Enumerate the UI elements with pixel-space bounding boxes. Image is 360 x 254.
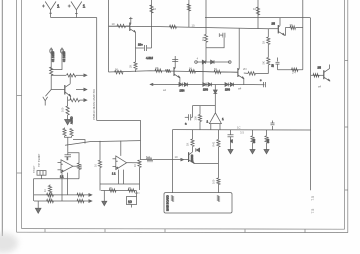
svg-text:10: 10 xyxy=(153,7,157,11)
svg-text:100: 100 xyxy=(61,107,65,112)
ground GND2 xyxy=(228,150,233,154)
wire R32 link xyxy=(132,163,140,190)
resistor R23 leg xyxy=(265,130,270,150)
wire mid rail y72 xyxy=(109,71,238,73)
resistor R5 xyxy=(117,24,126,27)
wire R18 to Q6 xyxy=(192,147,194,153)
svg-text:2K: 2K xyxy=(128,186,131,190)
wire Q5 emitter kink xyxy=(284,28,290,36)
svg-text:2K: 2K xyxy=(109,186,112,190)
wire Q6 base row xyxy=(141,159,147,161)
signal arrow out 3 xyxy=(80,99,87,102)
svg-text:2.4: 2.4 xyxy=(292,71,296,75)
terminal blob 1 xyxy=(171,196,173,202)
svg-text:-: - xyxy=(116,159,117,163)
op-amp U1 xyxy=(207,113,225,130)
resistor R35 xyxy=(47,199,54,202)
svg-text:24=: 24= xyxy=(135,191,140,195)
wire U1 left input xyxy=(192,106,194,118)
svg-text:2N: 2N xyxy=(272,22,275,26)
wire Q4 base xyxy=(221,71,238,73)
wire R19 to Q6 xyxy=(153,159,189,161)
wire bottom row 2 xyxy=(34,200,91,202)
wire base row xyxy=(51,89,65,91)
wire R7 to rail xyxy=(135,70,137,73)
wire vertical x189 xyxy=(188,0,190,27)
wire R31 down xyxy=(99,168,101,191)
resistor R21 xyxy=(217,178,220,184)
resistor R25 xyxy=(292,68,298,71)
resistor R22 leg xyxy=(251,130,256,150)
resistor R34 xyxy=(77,193,84,196)
wire supply vertical x108 xyxy=(108,0,110,72)
diode CR11 xyxy=(213,90,217,94)
resistor R32 xyxy=(138,160,141,167)
svg-text:4.52J: 4.52J xyxy=(146,56,153,60)
wire Q3 emitter to bus xyxy=(179,78,181,85)
svg-text:5K: 5K xyxy=(262,61,266,64)
svg-text:560: 560 xyxy=(267,138,270,143)
capacitor C4 above Q3 xyxy=(172,60,178,62)
signal arrow out 1 xyxy=(76,74,87,77)
svg-text:MAIN BOARD: MAIN BOARD xyxy=(167,195,170,211)
resistor R18 xyxy=(191,139,194,146)
wire x268 chain xyxy=(267,29,269,37)
wire bias vertical xyxy=(50,75,52,89)
resistor R36 xyxy=(77,199,84,202)
wire R16 right xyxy=(256,72,269,74)
diode pair CR5 CR6 xyxy=(179,83,188,93)
wire bottom of right cluster xyxy=(278,69,303,71)
wire Q7 base xyxy=(311,74,324,76)
transistor Q5 xyxy=(272,18,285,36)
svg-text:a4: a4 xyxy=(318,85,322,89)
wire bottom row 1 xyxy=(34,194,91,196)
wire U2 pin drops xyxy=(62,173,68,201)
resistor R14 xyxy=(189,70,195,73)
svg-text:.01: .01 xyxy=(231,139,234,143)
resistor R40 xyxy=(204,34,207,42)
border zone tick marks xyxy=(17,61,348,233)
wire corner to bottom-left area xyxy=(97,121,141,161)
capacitor C1 xyxy=(50,48,55,67)
svg-text:10: 10 xyxy=(128,200,132,204)
wire vertical x303 xyxy=(302,0,304,70)
capacitor C2 xyxy=(61,48,66,67)
svg-text:a4: a4 xyxy=(238,87,242,91)
resistor R38 xyxy=(109,189,116,192)
transistor Q2a xyxy=(129,17,136,33)
svg-text:1K: 1K xyxy=(262,41,266,44)
transistor Q7 xyxy=(318,65,331,82)
capacitor C11 xyxy=(219,33,225,38)
signal arrow out 2 xyxy=(76,88,87,91)
svg-text:TP TEMP: TP TEMP xyxy=(37,154,41,167)
resistor R16 xyxy=(248,72,255,75)
capacitor C10 xyxy=(65,155,72,160)
resistor R39 xyxy=(128,189,135,192)
wire center bus xyxy=(151,83,265,85)
wire x206 lower xyxy=(205,42,207,62)
transistor Q6 xyxy=(189,152,195,164)
svg-text:100: 100 xyxy=(194,116,198,121)
svg-text:R41: R41 xyxy=(212,141,216,146)
svg-text:5a1: 5a1 xyxy=(146,155,151,159)
svg-text:560: 560 xyxy=(253,138,256,143)
resistor R6 xyxy=(150,5,153,13)
resistor R15 xyxy=(214,70,221,73)
svg-text:10: 10 xyxy=(112,22,116,26)
svg-text:1N4: 1N4 xyxy=(180,89,185,93)
wire U2 feedback xyxy=(68,153,79,163)
resistor R20 xyxy=(217,140,220,147)
resistor R31 xyxy=(98,160,101,167)
svg-text:2N: 2N xyxy=(318,66,321,70)
page bottom-left corner shadow xyxy=(0,233,18,253)
resistor R8 xyxy=(170,25,177,28)
diode CR1 (top-left V symbol) xyxy=(42,2,60,18)
svg-text:1K: 1K xyxy=(44,189,47,192)
wire R21 to box xyxy=(217,185,219,193)
wire vertical x206 xyxy=(205,0,207,34)
resistor R33 xyxy=(47,193,54,196)
resistor R9 xyxy=(187,4,190,11)
resistor R30 xyxy=(77,163,80,169)
wire slanted mid link xyxy=(65,141,141,146)
diode CR4 xyxy=(211,60,214,64)
svg-text:10: 10 xyxy=(253,7,257,11)
ground GND1 xyxy=(65,115,74,125)
wire left drop xyxy=(33,179,35,201)
wire left long vertical xyxy=(96,18,98,121)
op-amp U3 xyxy=(112,156,132,176)
wire x268 bottom xyxy=(267,65,269,74)
test point Y symbol xyxy=(43,90,51,106)
wire CR11 to U1 xyxy=(214,94,216,113)
transistor Q4 xyxy=(238,28,244,79)
wire lower rail xyxy=(173,129,311,131)
wire Q5 base xyxy=(268,28,278,30)
svg-text:C1 10/25: C1 10/25 xyxy=(51,51,55,62)
wire bus to diode CR11 xyxy=(214,85,216,91)
wire Q2a emitter down xyxy=(134,32,136,48)
resistor R12 xyxy=(155,69,162,72)
svg-text:1N4: 1N4 xyxy=(225,88,230,92)
capacitor C3 xyxy=(136,43,154,61)
transistor Q1 xyxy=(65,75,71,96)
wire R5 to Q2a xyxy=(126,25,130,27)
diode pair CR9 CR10 xyxy=(225,83,234,92)
wire Q4 emitter to bus xyxy=(243,79,245,85)
resistor R3 xyxy=(70,98,80,101)
resistor R1 xyxy=(50,67,53,75)
terminal blob 2 xyxy=(217,196,219,202)
wire x172 to box xyxy=(172,130,174,193)
wire rail to R20 xyxy=(217,130,219,140)
svg-text:1K: 1K xyxy=(186,143,190,146)
wire mid rail right part xyxy=(196,70,215,73)
wire bypass loop xyxy=(206,38,224,48)
wire rail after Q4 xyxy=(244,72,248,74)
wire U1 feedback top xyxy=(193,106,216,115)
capacitor C9 xyxy=(272,58,280,70)
wire U3 top drops xyxy=(100,141,121,160)
junction arrow on base wire xyxy=(181,158,184,161)
svg-text:7.5: 7.5 xyxy=(311,196,315,201)
svg-text:56: 56 xyxy=(115,68,118,72)
bus left arrow xyxy=(150,83,153,85)
resistor R19 xyxy=(147,158,153,161)
svg-text:3K: 3K xyxy=(290,23,293,27)
resistor R17 xyxy=(198,115,201,122)
op-amp U2 xyxy=(58,157,80,179)
svg-text:7.5: 7.5 xyxy=(311,209,315,214)
wire vertical x151 xyxy=(151,0,153,48)
diode pair CR7 CR8 xyxy=(203,83,212,92)
resistor R27 xyxy=(267,58,270,65)
wire joining caps xyxy=(51,67,62,70)
svg-text:1N4: 1N4 xyxy=(203,88,208,92)
arrow row 2 xyxy=(89,200,92,203)
svg-text:3.5: 3.5 xyxy=(240,131,244,135)
resistor R37 vertical xyxy=(48,185,51,202)
node wire row 1 xyxy=(51,74,66,76)
resistor R10 xyxy=(256,7,259,15)
resistor R7 xyxy=(134,62,137,69)
wire rail to R18 xyxy=(192,130,194,139)
resistor R24 xyxy=(290,26,296,29)
wire emitter row xyxy=(68,97,71,107)
wire x218 middle xyxy=(217,147,219,178)
wire x203 to bus xyxy=(202,61,204,84)
wire top supply rail xyxy=(205,18,311,191)
resistor R13 xyxy=(166,69,171,72)
scan page left edge xyxy=(1,0,3,236)
capacitor C8 on rail xyxy=(271,121,275,131)
svg-text:10a: 10a xyxy=(202,36,205,41)
wire base Q2a xyxy=(109,25,118,27)
resistor R29 pair a xyxy=(63,128,66,136)
svg-text:AGND: AGND xyxy=(70,116,74,124)
resistor R29 pair b xyxy=(70,129,73,136)
wire Q6 emitter row xyxy=(194,162,218,164)
wire mid link stub xyxy=(73,140,85,144)
svg-text:1C: 1C xyxy=(237,126,241,130)
wire x268 mid xyxy=(267,45,269,58)
svg-text:10K: 10K xyxy=(80,164,83,169)
svg-text:10: 10 xyxy=(175,155,179,159)
pin circle right xyxy=(229,61,232,64)
diode row wire xyxy=(197,61,230,63)
svg-text:2K: 2K xyxy=(129,65,133,68)
svg-text:10.: 10. xyxy=(192,24,196,28)
ground GND3 xyxy=(250,150,255,154)
wire vertical x258 xyxy=(257,0,259,29)
arrow row 1 xyxy=(89,194,92,197)
svg-text:100: 100 xyxy=(212,179,216,184)
wire bottom row link xyxy=(34,178,80,180)
svg-text:1 1: 1 1 xyxy=(112,173,116,176)
wire top-left horizontal xyxy=(51,17,97,19)
capacitor C5 bus right end xyxy=(260,79,266,87)
resistor R4 xyxy=(66,106,69,115)
svg-text:56: 56 xyxy=(156,66,159,70)
ground GND6 xyxy=(102,191,107,206)
capacitor C7 leg xyxy=(228,130,234,150)
diode CR2 (top-left V symbol) xyxy=(68,2,86,18)
TP connector J1 xyxy=(37,171,46,179)
svg-text:10+: 10+ xyxy=(138,43,143,47)
svg-text:-: - xyxy=(62,162,63,166)
ground GND4 xyxy=(264,150,269,154)
svg-text:C2 10/25: C2 10/25 xyxy=(62,51,66,62)
diode CR12 xyxy=(196,148,200,152)
resistor R2 xyxy=(67,74,76,77)
svg-text:2N: 2N xyxy=(243,67,246,71)
connector box P1 xyxy=(164,193,232,213)
wire Q2a emitter chain xyxy=(135,48,137,62)
wire long top rail xyxy=(109,26,269,28)
capacitor C6 xyxy=(185,114,193,125)
resistor R11 xyxy=(115,71,124,74)
pin circle left xyxy=(195,61,198,64)
ground GND5 xyxy=(35,201,41,213)
wire R17 to rail xyxy=(199,122,201,130)
resistor R26 xyxy=(267,37,270,44)
wire cap pair join xyxy=(65,136,72,155)
transistor Q3 xyxy=(174,56,180,78)
component box 10 xyxy=(127,191,137,208)
wire R24 corner down xyxy=(296,27,303,29)
svg-text:2N600: 2N600 xyxy=(191,154,194,162)
resistor R28 xyxy=(313,74,319,77)
diode CR3 xyxy=(202,60,205,64)
wire right bottom group xyxy=(101,190,137,192)
wire R30 down xyxy=(78,170,80,179)
wire U3 bottom xyxy=(100,170,140,184)
svg-text:PM510 MAIN AMP BD: PM510 MAIN AMP BD xyxy=(92,88,96,120)
svg-text:TP107: TP107 xyxy=(33,165,36,173)
